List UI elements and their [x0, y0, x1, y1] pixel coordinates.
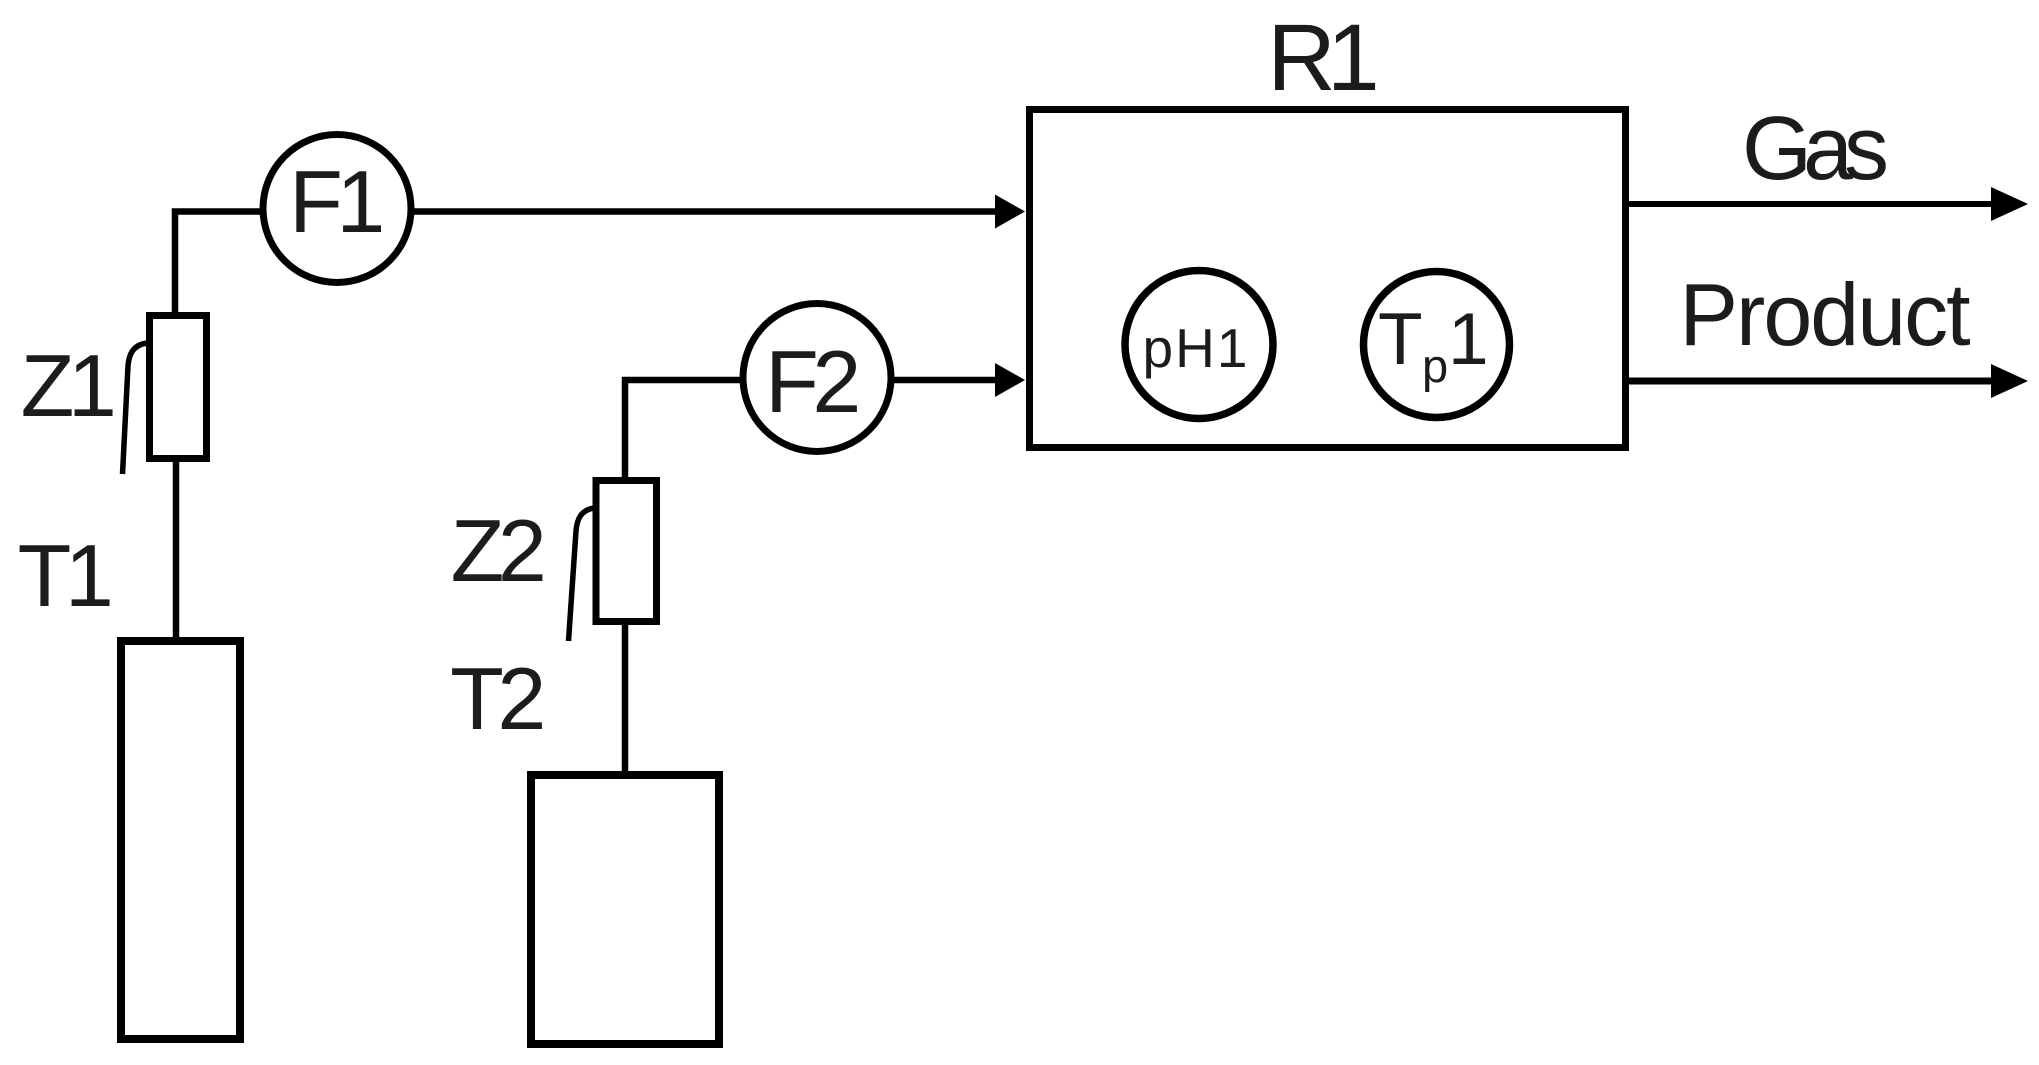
tank T1: [121, 641, 240, 1039]
arrowhead product outlet: [1991, 364, 2028, 398]
tank T2: [531, 775, 719, 1044]
svg-text:Gas: Gas: [1742, 99, 1886, 199]
arrowhead F1 line into R1: [995, 195, 1025, 229]
svg-text:F2: F2: [765, 332, 857, 431]
wire valve Z1 to tank T1: [173, 458, 180, 641]
gas outlet wire: [1629, 201, 1992, 207]
svg-text:1: 1: [1448, 299, 1489, 380]
wire valve Z2 to tank T2: [622, 621, 629, 775]
svg-text:F1: F1: [289, 152, 381, 251]
svg-text:pH1: pH1: [1143, 317, 1250, 379]
product outlet wire: [1629, 378, 1992, 385]
svg-text:T: T: [1378, 299, 1423, 380]
flow meter F1: [263, 135, 411, 283]
svg-text:T1: T1: [18, 526, 110, 625]
arrowhead F2 line into R1: [995, 363, 1025, 397]
wire F2 to reactor R1: [817, 377, 996, 384]
valve Z2: [596, 481, 657, 622]
reactor R1: [1030, 110, 1626, 448]
svg-text:Z2: Z2: [451, 501, 543, 600]
wire F2 inlet elbow from riser: [625, 380, 817, 481]
svg-text:p: p: [1422, 339, 1448, 392]
arrowhead gas outlet: [1991, 187, 2028, 221]
wire F1 to reactor R1: [337, 208, 996, 215]
wire F1 inlet elbow from riser: [175, 212, 337, 317]
svg-text:T2: T2: [450, 649, 542, 748]
valve Z1: [150, 316, 207, 459]
valve Z1 lever: [123, 343, 148, 474]
svg-text:Z1: Z1: [21, 336, 113, 435]
svg-text:R1: R1: [1267, 5, 1376, 111]
temperature sensor Tp1: [1364, 272, 1510, 418]
svg-text:Product: Product: [1679, 265, 1970, 364]
pH sensor pH1: [1125, 271, 1273, 419]
valve Z2 lever: [569, 508, 595, 641]
flow meter F2: [743, 304, 891, 452]
